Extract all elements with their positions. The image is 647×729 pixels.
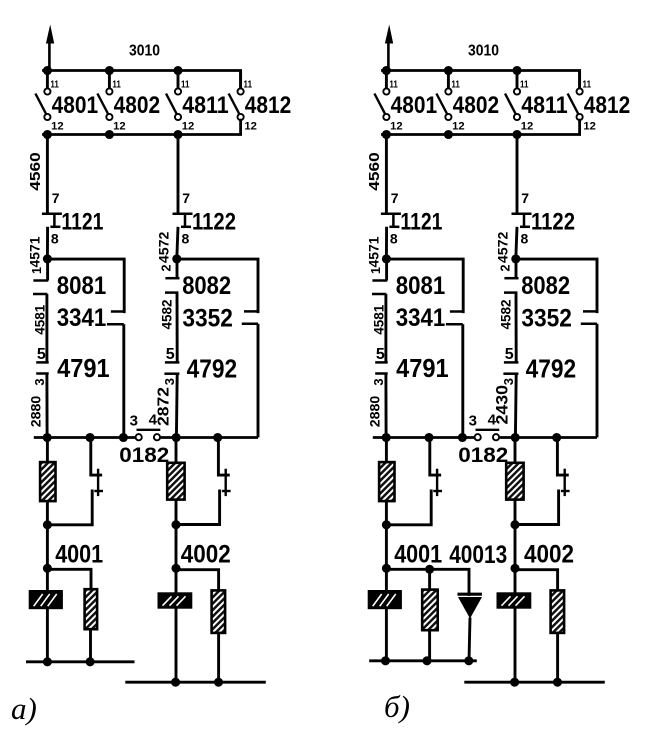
- svg-text:4: 4: [149, 412, 158, 429]
- connector foot (8081 side): [450, 310, 465, 313]
- connector foot (8082 side): [583, 310, 598, 313]
- resistor R1 body: [40, 462, 55, 501]
- capacitor C1б plate bar: [436, 469, 438, 496]
- relay coil 4002б body: [497, 592, 532, 608]
- wire middle bus right part: [499, 436, 597, 439]
- svg-text:4001: 4001: [394, 541, 442, 569]
- contact 4812 (б) pin stub: [578, 71, 581, 89]
- connector pin foot: [375, 361, 388, 364]
- svg-text:3341: 3341: [396, 304, 446, 332]
- wire 4571 segment: [46, 227, 49, 259]
- contact 4801 pin 12 terminal: [44, 114, 50, 120]
- capacitor C1 plate bar: [97, 469, 99, 496]
- junction dot: [552, 433, 561, 442]
- wire from bus to resistor R3: [514, 438, 517, 464]
- junction dot: [172, 433, 181, 442]
- node C junction dot: [382, 520, 391, 529]
- node B junction dot: [172, 254, 181, 263]
- svg-text:1121: 1121: [400, 209, 442, 236]
- contact 1121 link: [53, 214, 56, 227]
- svg-text:4581: 4581: [371, 305, 387, 335]
- junction dot: [214, 678, 223, 687]
- diagram a): [26, 25, 291, 687]
- junction dot: [171, 678, 180, 687]
- wire lower segment to bus: [175, 374, 179, 438]
- connector pin foot: [36, 361, 49, 364]
- node A junction dot: [43, 254, 52, 263]
- junction dot: [43, 130, 52, 139]
- wire 4582 segment: [515, 293, 518, 363]
- contact 4812 blade: [229, 94, 241, 116]
- svg-text:3: 3: [469, 413, 477, 430]
- contact 1121 (б) lower tick: [389, 226, 399, 229]
- diode 40013 cathode bar: [458, 593, 482, 596]
- wire coil 4002 to rail: [514, 608, 517, 682]
- wire middle bus left part: [34, 436, 136, 439]
- svg-text:11: 11: [112, 79, 121, 90]
- capacitor C1б upper lead: [430, 438, 440, 476]
- contact 4802 pin stub: [108, 71, 111, 89]
- connector foot (lower side): [242, 323, 258, 326]
- junction dot: [464, 656, 473, 665]
- resistor R3 body: [167, 463, 184, 500]
- svg-text:2880: 2880: [28, 396, 44, 428]
- capacitor C2 lower tick: [222, 490, 231, 492]
- svg-text:4791: 4791: [396, 353, 449, 383]
- svg-text:12: 12: [182, 121, 195, 133]
- wire loop right lower segment: [257, 324, 260, 438]
- svg-text:4811: 4811: [182, 92, 229, 119]
- svg-text:5: 5: [166, 346, 175, 363]
- junction dot: [512, 66, 521, 75]
- junction dot: [119, 433, 128, 442]
- contact 4811 (б) blade: [505, 94, 517, 116]
- junction dot: [510, 678, 519, 687]
- svg-text:12: 12: [452, 121, 465, 133]
- svg-text:2: 2: [159, 264, 173, 271]
- wire 4572 segment: [177, 227, 178, 259]
- junction dot: [381, 656, 390, 665]
- capacitor lower lead: [176, 491, 220, 525]
- node E junction dot: [510, 520, 519, 529]
- contact 4802 pin 11 terminal: [106, 88, 112, 94]
- wire node D to coil: [385, 568, 388, 591]
- svg-text:7: 7: [521, 190, 529, 206]
- node F junction dot: [510, 564, 519, 573]
- wire node D to coil: [46, 568, 49, 591]
- wire lower segment to bus: [514, 374, 518, 438]
- capacitor lower lead: [386, 491, 431, 525]
- wire branch to resistor R4: [176, 570, 219, 591]
- svg-text:1: 1: [369, 267, 383, 274]
- junction dot: [553, 678, 562, 687]
- svg-text:12: 12: [244, 121, 257, 133]
- svg-text:4811: 4811: [521, 92, 568, 119]
- wire lower switch bus: [383, 120, 580, 134]
- svg-text:4572: 4572: [155, 231, 171, 263]
- junction dot: [444, 130, 453, 139]
- wire branch to resistor R4: [515, 570, 558, 591]
- node bus 3010 top: [44, 71, 241, 89]
- contact 4812 (б) pin 12 terminal: [577, 114, 583, 120]
- junction dot: [86, 657, 95, 666]
- supply arrow (power feed): [387, 40, 390, 71]
- contact 1121 lower tick: [50, 226, 60, 229]
- node C junction dot: [43, 520, 52, 529]
- svg-text:4560: 4560: [27, 152, 44, 191]
- svg-text:40013: 40013: [449, 541, 507, 569]
- contact 4812 pin stub: [239, 71, 242, 89]
- svg-text:4792: 4792: [526, 353, 577, 383]
- contact 4801 (б) blade: [374, 94, 386, 116]
- wire node C to node D: [385, 525, 388, 569]
- contact 4802 blade: [97, 94, 109, 116]
- contact 4801 (б) pin 11 terminal: [383, 88, 389, 94]
- junction dot: [43, 433, 52, 442]
- resistor R4 body: [212, 590, 226, 633]
- node bus 3010 top: [383, 71, 580, 89]
- contact 4812 (б) blade: [568, 94, 580, 116]
- wire loop 8082 top+right: [177, 259, 258, 312]
- wire 4560 segment: [46, 135, 49, 214]
- svg-text:4581: 4581: [32, 305, 48, 335]
- wire coil 4001 to rail: [385, 609, 388, 662]
- capacitor C1 upper lead: [91, 438, 101, 476]
- junction dot: [511, 433, 520, 442]
- ground rail left group: [26, 660, 135, 663]
- wire segment below node B: [176, 259, 179, 278]
- contact 4811 (б) pin 12 terminal: [514, 114, 520, 120]
- contact 4802 (б) pin 12 terminal: [445, 114, 451, 120]
- capacitor C2 upper lead: [218, 438, 228, 476]
- node D junction dot: [382, 564, 391, 573]
- junction dot: [382, 130, 391, 139]
- contact 1122 link: [184, 214, 187, 227]
- junction dot: [512, 130, 521, 139]
- connector foot (lower side): [107, 323, 124, 326]
- wire middle bus right part: [160, 436, 258, 439]
- svg-text:8081: 8081: [57, 272, 107, 300]
- wire R4 to rail: [217, 632, 220, 682]
- wire node E to node F: [175, 525, 178, 569]
- svg-text:8081: 8081: [396, 272, 446, 300]
- contact 4801 pin stub: [46, 71, 49, 89]
- svg-text:8: 8: [521, 231, 529, 247]
- contact 1121 upper tick: [42, 213, 62, 216]
- wire loop right lower segment: [461, 324, 464, 437]
- wire R2 to rail: [428, 630, 431, 661]
- capacitor C2б upper lead: [557, 438, 567, 476]
- svg-text:0182: 0182: [458, 444, 508, 467]
- wire segment below node B: [515, 259, 518, 278]
- svg-text:4801: 4801: [52, 92, 99, 119]
- junction dot: [382, 433, 391, 442]
- junction dot: [85, 433, 94, 442]
- svg-text:7: 7: [182, 190, 190, 206]
- contact 1121 (б) link: [392, 214, 395, 227]
- svg-text:11: 11: [583, 79, 592, 90]
- svg-text:3: 3: [501, 378, 516, 385]
- node E junction dot: [171, 520, 180, 529]
- contact 0182 right terminal: [493, 434, 499, 440]
- wire 4581 segment: [45, 294, 48, 362]
- contact 1121 (б) upper tick: [381, 213, 401, 216]
- svg-text:8: 8: [390, 231, 398, 247]
- svg-text:4801: 4801: [391, 92, 438, 119]
- connector pin foot: [33, 293, 47, 296]
- wire R3 to node E: [514, 499, 517, 525]
- wire segment to 1122: [177, 135, 180, 214]
- junction dot: [422, 656, 431, 665]
- wire lower switch bus: [44, 120, 241, 134]
- wire segment below node A: [385, 259, 388, 281]
- capacitor lower lead: [47, 491, 92, 525]
- contact 4811 pin stub: [177, 71, 180, 89]
- svg-text:4560: 4560: [366, 152, 383, 191]
- contact 0182 bridge bar: [476, 429, 500, 431]
- svg-text:2880: 2880: [367, 396, 383, 428]
- svg-text:8: 8: [51, 231, 59, 247]
- ground rail left group: [369, 659, 477, 662]
- wire 4582 segment: [176, 293, 179, 363]
- junction dot: [43, 66, 52, 75]
- connector pin foot: [33, 279, 48, 282]
- contact 1122 (б) lower tick: [520, 226, 530, 229]
- svg-text:4582: 4582: [158, 299, 174, 329]
- wire branch to R2 and diode: [386, 569, 469, 594]
- junction dot: [444, 66, 453, 75]
- svg-text:4001: 4001: [55, 541, 103, 569]
- junction dot: [424, 433, 433, 442]
- svg-text:0182: 0182: [119, 444, 169, 467]
- connector foot (8082 side): [244, 310, 259, 313]
- wire diode to rail: [469, 618, 470, 662]
- connector pin foot: [504, 361, 519, 364]
- contact 1122 (б) link: [523, 214, 526, 227]
- resistor R1б body: [379, 462, 394, 501]
- contact 4802 pin 12 terminal: [106, 114, 112, 120]
- svg-text:2: 2: [498, 264, 512, 271]
- connector pin foot: [164, 372, 179, 375]
- contact 0182 left terminal: [475, 434, 481, 440]
- wire 4581 segment: [384, 294, 387, 362]
- capacitor lower lead: [515, 491, 559, 525]
- relay coil 4001 body: [29, 590, 63, 609]
- contact 4812 pin 11 terminal: [238, 88, 244, 94]
- wire node F to coil 4002: [514, 568, 517, 593]
- contact 4802 (б) pin stub: [447, 71, 450, 89]
- svg-text:11: 11: [389, 79, 398, 90]
- connector foot (lower side): [446, 323, 463, 326]
- junction dot: [105, 66, 114, 75]
- svg-text:4002: 4002: [181, 541, 231, 569]
- svg-text:3341: 3341: [57, 304, 107, 332]
- wire loop 8081 top+right: [47, 259, 124, 312]
- contact 0182 right terminal: [154, 434, 160, 440]
- svg-text:3010: 3010: [468, 43, 499, 60]
- diagram b): [365, 25, 630, 687]
- junction dot: [458, 433, 467, 442]
- svg-text:5: 5: [37, 346, 46, 363]
- svg-text:12: 12: [521, 121, 534, 133]
- connector pin foot: [165, 277, 179, 280]
- svg-text:5: 5: [505, 346, 514, 363]
- wire from bus to resistor R1: [46, 438, 49, 464]
- resistor R4б body: [551, 590, 565, 633]
- svg-text:5: 5: [376, 346, 385, 363]
- connector pin foot: [372, 279, 387, 282]
- contact 0182 bridge bar: [137, 429, 161, 431]
- diode 40013 body: [458, 597, 482, 619]
- junction dot: [382, 66, 391, 75]
- wire coil 4001 to rail: [46, 609, 49, 662]
- svg-text:7: 7: [52, 190, 60, 206]
- wire node C to node D: [46, 525, 49, 569]
- wire R2 drop: [428, 569, 431, 590]
- supply arrow (power feed): [48, 40, 51, 71]
- contact 1122 (б) upper tick: [512, 213, 532, 216]
- wire segment to 1122: [516, 135, 519, 214]
- ground rail right group: [464, 681, 605, 684]
- wire branch to resistor R2: [47, 569, 91, 590]
- connector pin foot: [372, 293, 386, 296]
- wire R4 to rail: [556, 632, 559, 682]
- contact 4802 (б) pin 11 terminal: [445, 88, 451, 94]
- wire R2 to rail: [89, 629, 92, 662]
- wire from bus to resistor R3: [175, 438, 178, 464]
- capacitor C2 plate bar: [224, 469, 226, 496]
- wire resistor R1 to node C: [46, 501, 49, 526]
- wire resistor R1 to node C: [385, 501, 388, 526]
- svg-text:4002: 4002: [524, 541, 574, 569]
- wire loop right lower segment: [596, 324, 599, 438]
- svg-text:12: 12: [51, 121, 64, 133]
- svg-text:11: 11: [451, 79, 460, 90]
- contact 4801 pin 11 terminal: [44, 88, 50, 94]
- svg-text:12: 12: [583, 121, 596, 133]
- node D junction dot: [43, 564, 52, 573]
- junction dot: [173, 66, 182, 75]
- svg-text:1122: 1122: [531, 209, 575, 236]
- junction dot: [213, 433, 222, 442]
- wire node E to node F: [514, 525, 517, 569]
- connector pin foot: [165, 291, 178, 294]
- wire 4572 segment: [516, 227, 517, 259]
- svg-text:4802: 4802: [114, 92, 161, 119]
- svg-text:2872: 2872: [156, 387, 173, 426]
- svg-text:1122: 1122: [192, 209, 236, 236]
- wire 4571 segment: [385, 227, 388, 259]
- svg-text:3010: 3010: [129, 43, 160, 60]
- wire loop 8081 top+right: [386, 259, 463, 312]
- contact 4802 (б) blade: [436, 94, 448, 116]
- ground rail right group: [125, 681, 265, 684]
- wire 4560 segment: [385, 135, 388, 214]
- wire segment below node A: [46, 259, 49, 281]
- connector pin foot: [504, 277, 518, 280]
- resistor R2б body: [422, 590, 438, 631]
- svg-text:4791: 4791: [57, 353, 110, 383]
- svg-text:4: 4: [488, 412, 497, 429]
- junction dot: [43, 657, 52, 666]
- connector pin foot: [504, 291, 517, 294]
- capacitor C1 lower tick: [94, 490, 103, 492]
- svg-text:11: 11: [181, 79, 190, 90]
- svg-text:11: 11: [50, 79, 59, 90]
- wire loop right lower segment: [122, 324, 125, 437]
- wire 2880 segment: [45, 374, 48, 438]
- svg-text:7: 7: [391, 190, 399, 206]
- svg-text:3: 3: [32, 378, 47, 385]
- contact 4812 (б) pin 11 terminal: [577, 88, 583, 94]
- svg-text:3: 3: [371, 378, 386, 385]
- contact 4801 blade: [35, 94, 47, 116]
- wire coil 4002 to rail: [175, 608, 178, 682]
- junction dot: [425, 565, 434, 574]
- svg-text:3352: 3352: [182, 304, 233, 332]
- svg-text:3352: 3352: [521, 304, 572, 332]
- svg-text:4572: 4572: [494, 231, 510, 263]
- resistor R2 body: [85, 589, 98, 629]
- node F junction dot: [171, 564, 180, 573]
- svg-text:3: 3: [130, 413, 138, 430]
- connector foot (lower side): [581, 323, 597, 326]
- capacitor C2б lower tick: [561, 490, 570, 492]
- svg-text:4802: 4802: [453, 92, 500, 119]
- contact 4801 (б) pin 12 terminal: [383, 114, 389, 120]
- svg-text:8082: 8082: [182, 272, 231, 300]
- svg-text:4571: 4571: [26, 236, 42, 267]
- contact 4811 (б) pin stub: [516, 71, 519, 89]
- contact 0182 left terminal: [136, 434, 142, 440]
- contact 4801 (б) pin stub: [385, 71, 388, 89]
- resistor R3б body: [506, 463, 523, 500]
- relay coil 4002 body: [158, 592, 193, 608]
- svg-text:4812: 4812: [584, 92, 631, 119]
- wire from bus to resistor R1: [385, 438, 388, 464]
- svg-text:11: 11: [244, 79, 253, 90]
- connector pin foot: [375, 372, 388, 375]
- svg-text:4571: 4571: [365, 236, 381, 267]
- contact 1122 lower tick: [181, 226, 191, 229]
- wire R3 to node E: [175, 499, 178, 525]
- svg-text:11: 11: [520, 79, 529, 90]
- contact 4811 blade: [166, 94, 178, 116]
- svg-text:3: 3: [162, 378, 177, 385]
- svg-text:8082: 8082: [521, 272, 570, 300]
- svg-text:12: 12: [390, 121, 403, 133]
- connector foot (8081 side): [111, 310, 126, 313]
- connector pin foot: [165, 361, 180, 364]
- wire 2880 segment: [384, 374, 387, 438]
- svg-text:б): б): [384, 689, 410, 724]
- contact 4811 pin 11 terminal: [175, 88, 181, 94]
- contact 1122 upper tick: [173, 213, 193, 216]
- contact 4812 pin 12 terminal: [238, 114, 244, 120]
- svg-text:1121: 1121: [61, 209, 103, 236]
- contact 4811 (б) pin 11 terminal: [514, 88, 520, 94]
- capacitor C1б lower tick: [433, 490, 442, 492]
- svg-text:1: 1: [30, 267, 44, 274]
- svg-text:а): а): [11, 691, 37, 726]
- svg-text:4792: 4792: [187, 353, 238, 383]
- svg-text:4582: 4582: [497, 299, 513, 329]
- junction dot: [105, 130, 114, 139]
- connector pin foot: [36, 372, 49, 375]
- capacitor C2б plate bar: [564, 469, 566, 496]
- connector pin foot: [503, 372, 518, 375]
- node B junction dot: [511, 254, 520, 263]
